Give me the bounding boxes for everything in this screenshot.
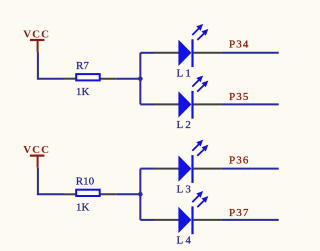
svg-text:VCC: VCC xyxy=(23,144,50,156)
pin 1 (anode) xyxy=(153,168,178,170)
wire branch to L4 xyxy=(140,219,154,221)
svg-text:VCC: VCC xyxy=(23,28,50,40)
cathode bar xyxy=(191,91,193,119)
resistor R7 xyxy=(63,60,117,98)
emission arrows xyxy=(192,141,207,156)
svg-text:1K: 1K xyxy=(76,86,90,98)
wire vertical branch (top) xyxy=(139,53,141,105)
svg-text:P35: P35 xyxy=(229,91,249,103)
cathode bar xyxy=(191,155,193,183)
svg-text:1K: 1K xyxy=(76,202,90,214)
pin 1 (anode) xyxy=(153,103,178,105)
bar xyxy=(30,39,45,41)
cathode bar xyxy=(191,39,193,67)
pin 2 (cathode) xyxy=(194,168,222,170)
wire VCC to R10 xyxy=(38,168,64,195)
wire L2 to P35 xyxy=(221,103,278,105)
stem xyxy=(37,156,39,168)
diode triangle xyxy=(178,40,191,66)
resistor R10 xyxy=(63,175,117,213)
emission arrows xyxy=(192,76,207,91)
svg-text:P37: P37 xyxy=(229,207,249,219)
svg-text:L4: L4 xyxy=(177,235,194,247)
svg-text:R7: R7 xyxy=(76,60,89,72)
LED L3 xyxy=(153,141,221,196)
pin 1 xyxy=(63,193,77,195)
stem xyxy=(37,40,39,52)
power port VCC xyxy=(23,28,50,52)
body xyxy=(76,190,100,196)
pin 2 xyxy=(100,193,117,195)
wire branch to L3 xyxy=(140,168,154,170)
pin 2 (cathode) xyxy=(194,219,222,221)
svg-text:L2: L2 xyxy=(177,119,194,131)
body xyxy=(76,74,100,80)
pin 1 xyxy=(63,78,77,80)
diode triangle xyxy=(178,155,191,181)
emission arrows xyxy=(192,192,207,207)
svg-text:L3: L3 xyxy=(177,183,194,195)
pin 1 (anode) xyxy=(153,52,178,54)
diode triangle xyxy=(178,207,191,233)
svg-text:R10: R10 xyxy=(76,175,95,187)
junction dot (bottom) xyxy=(138,192,143,197)
cathode bar xyxy=(191,206,193,234)
diode triangle xyxy=(178,91,191,117)
wire VCC to R7 xyxy=(38,52,64,79)
wire branch to L2 xyxy=(140,103,154,105)
wire L4 to P37 xyxy=(221,219,278,221)
pin 2 xyxy=(100,78,117,80)
power port VCC xyxy=(23,144,50,168)
svg-text:L1: L1 xyxy=(177,68,194,80)
wire R7 to junction xyxy=(117,78,141,80)
bar xyxy=(30,155,45,157)
LED L4 xyxy=(153,192,221,247)
LED L2 xyxy=(153,76,221,131)
wire branch to L1 xyxy=(140,52,154,54)
wire L3 to P36 xyxy=(221,168,278,170)
pin 1 (anode) xyxy=(153,219,178,221)
svg-text:P36: P36 xyxy=(229,154,249,166)
junction dot xyxy=(138,76,143,81)
LED L1 xyxy=(153,25,221,80)
wire vertical branch (bottom) xyxy=(139,169,141,220)
pin 2 (cathode) xyxy=(194,103,222,105)
wire R10 to junction xyxy=(117,193,141,195)
pin 2 (cathode) xyxy=(194,52,222,54)
emission arrows xyxy=(192,25,207,40)
svg-text:P34: P34 xyxy=(229,39,249,51)
wire L1 to P34 xyxy=(221,52,278,54)
